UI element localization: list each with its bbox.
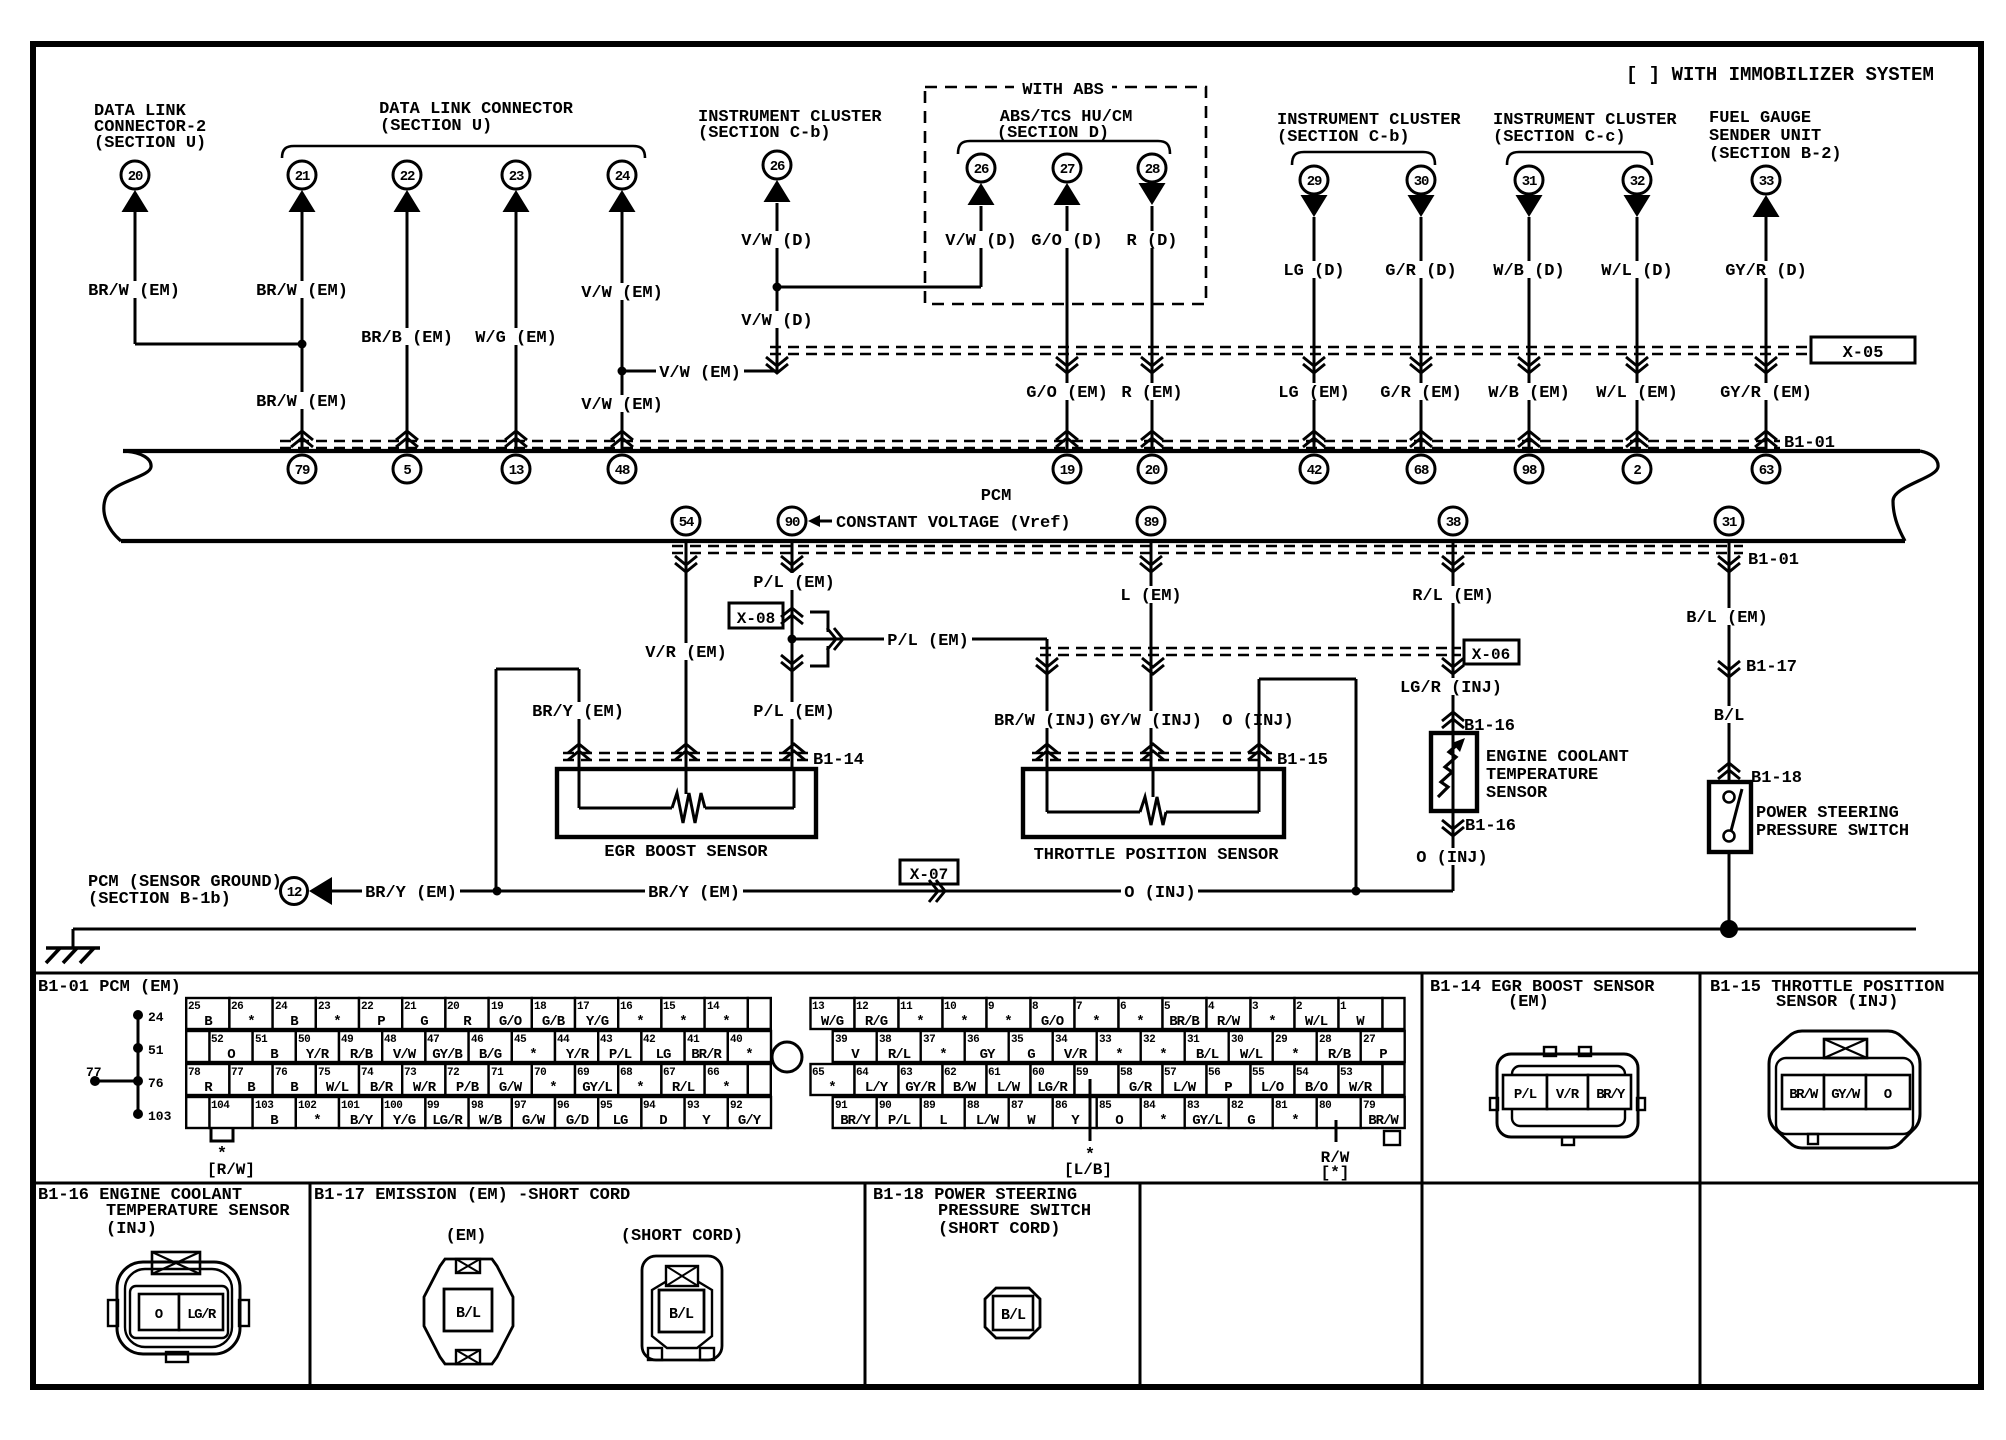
svg-text:PCM: PCM (981, 487, 1012, 506)
svg-text:[ ] WITH IMMOBILIZER SYSTEM: [ ] WITH IMMOBILIZER SYSTEM (1626, 64, 1934, 86)
svg-text:23: 23 (509, 169, 524, 185)
svg-text:W/L (EM): W/L (EM) (1596, 384, 1678, 403)
connector B1-15 throttle sensor drawing (1769, 1031, 1920, 1148)
svg-text:R (EM): R (EM) (1121, 384, 1182, 403)
svg-text:(SECTION C-b): (SECTION C-b) (1277, 128, 1410, 147)
label V/W (EM) wire 24 upper (578, 283, 666, 300)
svg-text:V/W: V/W (393, 1047, 417, 1063)
connector B1-01 upper crossing at x=1152 (1141, 431, 1163, 440)
svg-text:86: 86 (1055, 1100, 1067, 1112)
label GY/R (D) (1722, 261, 1810, 278)
svg-text:SENSOR: SENSOR (1486, 784, 1548, 803)
connector B1-01 upper crossing at x=1421 (1410, 431, 1432, 440)
svg-text:V/R: V/R (1556, 1087, 1580, 1103)
B1-01 pin 104 tab (211, 1128, 233, 1164)
brace INSTRUMENT CLUSTER C-b group (1292, 152, 1435, 165)
svg-text:13: 13 (812, 1001, 825, 1013)
svg-text:26: 26 (974, 162, 989, 178)
svg-text:X-05: X-05 (1843, 344, 1884, 363)
node label PCM (SENSOR GROUND) (88, 873, 282, 909)
svg-text:FUEL GAUGE: FUEL GAUGE (1709, 109, 1811, 128)
B1-01 side pin markers (86, 1010, 172, 1124)
svg-text:48: 48 (384, 1034, 397, 1046)
node label FUEL GAUGE SENDER UNIT (1709, 109, 1842, 164)
node label INSTRUMENT CLUSTER (SECTION C-c) (1493, 111, 1677, 147)
svg-text:79: 79 (1363, 1100, 1375, 1112)
svg-text:CONSTANT VOLTAGE (Vref): CONSTANT VOLTAGE (Vref) (836, 514, 1071, 533)
svg-text:*: * (636, 1080, 643, 1096)
svg-text:LG/R: LG/R (432, 1113, 463, 1129)
svg-text:26: 26 (231, 1001, 243, 1013)
svg-text:7: 7 (1076, 1001, 1082, 1013)
label W/L (D) (1598, 261, 1675, 278)
svg-text:B1-01: B1-01 (1748, 551, 1799, 570)
svg-text:98: 98 (1522, 463, 1537, 479)
svg-text:W/G (EM): W/G (EM) (475, 329, 557, 348)
svg-text:92: 92 (730, 1100, 742, 1112)
svg-text:4: 4 (1208, 1001, 1215, 1013)
svg-text:TEMPERATURE: TEMPERATURE (1486, 766, 1598, 785)
label BR/W (EM) wire 20 (85, 281, 183, 298)
terminal 23 at x=516 (502, 161, 530, 212)
svg-text:94: 94 (643, 1100, 656, 1112)
svg-text:*: * (1136, 1014, 1143, 1030)
svg-text:75: 75 (318, 1067, 331, 1079)
svg-text:W/G: W/G (821, 1014, 844, 1030)
svg-text:GY/R (EM): GY/R (EM) (1720, 384, 1812, 403)
label L (EM) (1117, 586, 1184, 603)
svg-text:Y/R: Y/R (566, 1047, 590, 1063)
svg-text:66: 66 (707, 1067, 719, 1079)
svg-text:LG: LG (656, 1047, 671, 1063)
svg-text:2: 2 (1296, 1001, 1302, 1013)
wire power steering switch to ground (1728, 852, 1731, 929)
wire V/W (EM) from terminal 24 to PCM pin 48 (621, 212, 624, 451)
svg-text:B1-18: B1-18 (1751, 769, 1802, 788)
connector B1-01 lower crossing at x=686 (675, 556, 697, 565)
svg-text:*: * (1268, 1014, 1275, 1030)
svg-text:95: 95 (600, 1100, 613, 1112)
section divider vertical B1-15 (1699, 973, 1702, 1183)
connector X-08 crossing down (781, 655, 803, 664)
svg-text:6: 6 (1120, 1001, 1126, 1013)
wire BR/W (EM) from terminal 21 to PCM pin 79 (301, 212, 304, 451)
svg-text:O (INJ): O (INJ) (1416, 849, 1487, 868)
throttle position sensor box (1023, 769, 1284, 837)
svg-text:G/D: G/D (566, 1113, 589, 1129)
connector B1-14 EGR drawing (1490, 1047, 1645, 1145)
svg-text:EGR BOOST SENSOR: EGR BOOST SENSOR (604, 843, 768, 862)
svg-text:(SECTION U): (SECTION U) (94, 134, 206, 153)
svg-text:B/L: B/L (1714, 707, 1745, 726)
junction V/W (D) split (773, 283, 782, 292)
svg-text:R/W: R/W (1217, 1014, 1241, 1030)
svg-text:SENDER UNIT: SENDER UNIT (1709, 127, 1821, 146)
svg-text:103: 103 (255, 1100, 274, 1112)
connector B1-15 crossing at x=1259 (1248, 744, 1270, 753)
wire ground line (73, 929, 1916, 948)
svg-text:47: 47 (427, 1034, 439, 1046)
svg-text:[*]: [*] (1321, 1164, 1350, 1182)
svg-text:BR/Y: BR/Y (1596, 1087, 1626, 1103)
connector B1-17 SHORT CORD drawing (642, 1256, 722, 1360)
svg-text:GY/L: GY/L (1192, 1113, 1222, 1129)
svg-text:V/W (D): V/W (D) (741, 232, 812, 251)
label O (INJ) bus (1121, 883, 1198, 900)
wire V/R (EM) PCM pin 54 to EGR boost sensor (685, 541, 688, 769)
B1-01 grid screw hole (772, 1042, 802, 1072)
svg-text:O: O (155, 1307, 163, 1323)
svg-text:3: 3 (1252, 1001, 1259, 1013)
B1-01 pin 80 lead (1321, 1120, 1350, 1167)
svg-text:26: 26 (770, 159, 785, 175)
svg-text:G/O (EM): G/O (EM) (1026, 384, 1108, 403)
svg-text:P/L (EM): P/L (EM) (753, 574, 835, 593)
arrow into terminal 12 (309, 877, 332, 905)
svg-text:80: 80 (1319, 1100, 1331, 1112)
connector B1-16 upper crossing (1442, 712, 1464, 721)
svg-text:11: 11 (900, 1001, 913, 1013)
connector B1-15 dashed bus (1032, 752, 1272, 754)
svg-text:27: 27 (1363, 1034, 1375, 1046)
svg-text:*: * (1092, 1014, 1099, 1030)
terminal 22 at x=407 (393, 161, 421, 212)
svg-text:GY/W: GY/W (1831, 1087, 1861, 1103)
terminal 29 at x=1314 (1300, 166, 1328, 217)
svg-text:V/R: V/R (1064, 1047, 1088, 1063)
wire R/L (EM) PCM pin 38 to coolant sensor (1452, 541, 1455, 733)
section divider horizontal 1 (33, 972, 1981, 975)
svg-text:33: 33 (1099, 1034, 1112, 1046)
svg-text:D: D (659, 1113, 667, 1129)
svg-text:102: 102 (298, 1100, 316, 1112)
connector B1-01 lower crossing at x=1453 (1442, 556, 1464, 565)
label B1-16 ENGINE COOLANT TEMPERATURE SENSOR (38, 1186, 290, 1239)
svg-text:V/R (EM): V/R (EM) (645, 644, 727, 663)
svg-text:R/G: R/G (865, 1014, 888, 1030)
svg-text:96: 96 (557, 1100, 569, 1112)
connector B1-15 crossing at x=1047 (1036, 744, 1058, 753)
svg-text:76: 76 (275, 1067, 287, 1079)
svg-text:L/W: L/W (1173, 1080, 1197, 1096)
svg-text:G: G (1247, 1113, 1255, 1129)
svg-text:R/L: R/L (888, 1047, 911, 1063)
svg-text:31: 31 (1722, 515, 1737, 531)
svg-text:1: 1 (1340, 1001, 1347, 1013)
svg-text:W/B: W/B (479, 1113, 503, 1129)
svg-text:81: 81 (1275, 1100, 1288, 1112)
connector B1-17 crossing (1718, 661, 1740, 670)
svg-text:Y/R: Y/R (306, 1047, 330, 1063)
label P/L (EM) upper (750, 573, 838, 590)
connector X-08 crossing up (781, 608, 803, 617)
svg-text:43: 43 (600, 1034, 613, 1046)
svg-text:28: 28 (1145, 162, 1160, 178)
svg-text:103: 103 (148, 1109, 172, 1124)
ECT thermistor symbol (1438, 733, 1465, 811)
svg-text:59: 59 (1076, 1067, 1088, 1079)
svg-text:69: 69 (577, 1067, 589, 1079)
label V/W (EM) on branch (656, 363, 744, 380)
svg-text:89: 89 (1144, 515, 1159, 531)
svg-text:WITH ABS: WITH ABS (1022, 81, 1104, 100)
svg-text:B/L: B/L (1196, 1047, 1219, 1063)
junction P/L branch (788, 635, 797, 644)
label LG (D) (1280, 261, 1347, 278)
svg-text:83: 83 (1187, 1100, 1200, 1112)
connector X-05 box (1811, 337, 1915, 363)
svg-text:W/B (D): W/B (D) (1493, 262, 1564, 281)
brace DATA LINK CONNECTOR group (282, 146, 645, 158)
power steering pressure switch contacts (1724, 789, 1743, 842)
svg-text:*: * (1159, 1047, 1166, 1063)
svg-text:B/R: B/R (370, 1080, 394, 1096)
junction power steering ground (1720, 920, 1738, 938)
svg-text:G/O: G/O (1041, 1014, 1064, 1030)
svg-text:*: * (636, 1014, 643, 1030)
B1-01 pin 59 lead (1085, 1079, 1095, 1165)
svg-text:B/Y: B/Y (350, 1113, 374, 1129)
svg-text:X-06: X-06 (1472, 646, 1510, 664)
svg-text:50: 50 (298, 1034, 310, 1046)
svg-text:22: 22 (361, 1001, 373, 1013)
svg-text:L/O: L/O (1261, 1080, 1284, 1096)
terminal 12 sensor ground (281, 878, 308, 905)
node label DATA LINK CONNECTOR (379, 100, 574, 136)
EGR boost sensor box (557, 769, 816, 837)
svg-text:30: 30 (1231, 1034, 1243, 1046)
wire L (EM) PCM pin 89 to throttle sensor (1150, 541, 1153, 769)
label BR/Y (EM) middle (645, 883, 743, 900)
wire BR/B (EM) from terminal 22 to PCM pin 5 (406, 212, 409, 451)
svg-text:B/L: B/L (1001, 1307, 1026, 1324)
terminal 26 at x=777 (763, 151, 791, 202)
svg-text:52: 52 (211, 1034, 223, 1046)
svg-text:30: 30 (1414, 174, 1429, 190)
label BR/W (EM) wire 21 lower (253, 392, 351, 409)
svg-text:31: 31 (1522, 174, 1537, 190)
svg-text:B/W: B/W (953, 1080, 977, 1096)
connector B1-01 upper crossing at x=1067 (1056, 431, 1078, 440)
connector B1-01 lower crossing at x=792 (781, 556, 803, 565)
svg-text:54: 54 (679, 515, 694, 531)
svg-text:R/B: R/B (1328, 1047, 1352, 1063)
svg-text:B/O: B/O (1305, 1080, 1328, 1096)
svg-text:89: 89 (923, 1100, 935, 1112)
svg-text:L/W: L/W (976, 1113, 1000, 1129)
svg-text:79: 79 (295, 463, 310, 479)
connector B1-01 upper crossing at x=1529 (1518, 431, 1540, 440)
svg-text:BR/R: BR/R (691, 1047, 722, 1063)
svg-text:20: 20 (1145, 463, 1160, 479)
svg-text:17: 17 (577, 1001, 589, 1013)
connector B1-18 crossing (1718, 763, 1740, 772)
PCM connector band outline (104, 451, 1938, 541)
label P/L (EM) branch (884, 631, 972, 648)
label G/O (EM) (1023, 383, 1111, 400)
svg-text:(SHORT CORD): (SHORT CORD) (938, 1220, 1060, 1239)
wire G/R from terminal 30 to PCM pin 68 (1420, 217, 1423, 451)
PCM pin 68 (1407, 455, 1435, 483)
svg-text:G/W: G/W (522, 1113, 546, 1129)
wire V/W (D) instrument cluster 26 (776, 203, 779, 371)
svg-text:GY/W (INJ): GY/W (INJ) (1100, 712, 1202, 731)
dashed box WITH ABS (925, 87, 1206, 304)
svg-text:X-08: X-08 (737, 610, 775, 628)
svg-text:GY/B: GY/B (432, 1047, 463, 1063)
connector X-08 branch crossing right (827, 628, 836, 650)
label P/L (EM) lower (750, 702, 838, 719)
svg-text:P: P (1379, 1047, 1387, 1063)
svg-text:38: 38 (879, 1034, 892, 1046)
label B1-15 THROTTLE POSITION SENSOR (1710, 978, 1945, 1012)
svg-text:BR/W: BR/W (1789, 1087, 1819, 1103)
svg-text:BR/Y (EM): BR/Y (EM) (648, 884, 740, 903)
svg-text:51: 51 (148, 1043, 164, 1058)
connector B1-14 dashed bus (563, 752, 808, 754)
svg-text:73: 73 (404, 1067, 417, 1079)
connector B1-18 drawing (985, 1288, 1040, 1338)
wire BR/W (EM) from terminal 20 (135, 212, 302, 344)
PCM pin 2 (1623, 455, 1651, 483)
label G/R (D) (1382, 261, 1459, 278)
engine coolant temperature sensor box (1431, 733, 1477, 811)
svg-text:B1-01 PCM (EM): B1-01 PCM (EM) (38, 978, 181, 997)
svg-text:THROTTLE POSITION SENSOR: THROTTLE POSITION SENSOR (1034, 846, 1280, 865)
svg-text:LG/R (INJ): LG/R (INJ) (1400, 679, 1502, 698)
svg-text:63: 63 (900, 1067, 913, 1079)
label CONSTANT VOLTAGE (Vref) (808, 514, 1071, 533)
svg-text:W/R: W/R (1349, 1080, 1373, 1096)
PCM pin 98 (1515, 455, 1543, 483)
svg-text:R/L (EM): R/L (EM) (1412, 587, 1494, 606)
svg-text:100: 100 (384, 1100, 402, 1112)
svg-text:W/L (D): W/L (D) (1601, 262, 1672, 281)
svg-text:14: 14 (707, 1001, 720, 1013)
svg-text:*: * (1291, 1113, 1298, 1129)
label LG (EM) (1275, 383, 1352, 400)
svg-text:(SECTION C-c): (SECTION C-c) (1493, 128, 1626, 147)
connector B1-14 crossing at x=579 (568, 744, 590, 753)
svg-text:P/L: P/L (609, 1047, 632, 1063)
svg-text:2: 2 (1633, 463, 1641, 479)
svg-text:32: 32 (1143, 1034, 1155, 1046)
label G/R (EM) (1377, 383, 1465, 400)
svg-text:104: 104 (211, 1100, 230, 1112)
label B/L (EM) (1683, 608, 1771, 625)
svg-text:58: 58 (1120, 1067, 1133, 1079)
svg-text:G: G (1027, 1047, 1035, 1063)
svg-text:O: O (1884, 1087, 1892, 1103)
svg-text:*: * (1115, 1047, 1122, 1063)
PCM pin 13 (502, 455, 530, 483)
svg-text:*: * (1159, 1113, 1166, 1129)
svg-text:24: 24 (615, 169, 630, 185)
svg-text:*: * (916, 1014, 923, 1030)
connector X-05 crossing at x=1766 (1755, 357, 1777, 366)
svg-text:16: 16 (620, 1001, 632, 1013)
svg-text:BR/Y: BR/Y (840, 1113, 871, 1129)
svg-text:W/L: W/L (326, 1080, 349, 1096)
connector X-05 crossing at x=777 (766, 357, 788, 366)
svg-text:BR/B (EM): BR/B (EM) (361, 329, 453, 348)
power steering pressure switch box (1709, 782, 1751, 852)
svg-text:GY/L: GY/L (582, 1080, 612, 1096)
terminal 21 at x=302 (288, 161, 316, 212)
svg-text:B/L: B/L (456, 1305, 481, 1322)
svg-text:68: 68 (1414, 463, 1429, 479)
svg-text:B1-14: B1-14 (813, 751, 864, 770)
svg-text:G: G (420, 1014, 428, 1030)
terminal 20 at x=135 (121, 161, 149, 212)
svg-text:56: 56 (1208, 1067, 1220, 1079)
svg-text:TEMPERATURE SENSOR: TEMPERATURE SENSOR (106, 1202, 290, 1221)
svg-text:42: 42 (643, 1034, 655, 1046)
label V/W (D) cluster upper (738, 231, 815, 248)
section divider vertical bottom x=1700 (1699, 1183, 1702, 1387)
svg-text:88: 88 (967, 1100, 980, 1112)
wire O (INJ) from ECT sensor (1356, 811, 1453, 891)
connector X-08 box (729, 603, 783, 628)
connector B1-16 ECT drawing (108, 1252, 249, 1362)
svg-text:G/W: G/W (499, 1080, 523, 1096)
label V/W (D) ABS (942, 231, 1019, 248)
svg-text:(SECTION U): (SECTION U) (380, 117, 492, 136)
node label ABS/TCS HU/CM (997, 108, 1132, 143)
connector X-05 crossing at x=1637 (1626, 357, 1648, 366)
label W/L (EM) (1593, 383, 1681, 400)
svg-text:78: 78 (188, 1067, 201, 1079)
label R/L (EM) (1409, 586, 1497, 603)
label B1-14 EGR BOOST SENSOR (1430, 978, 1655, 1012)
svg-text:63: 63 (1759, 463, 1774, 479)
svg-text:*: * (960, 1014, 967, 1030)
svg-text:PRESSURE SWITCH: PRESSURE SWITCH (938, 1202, 1091, 1221)
junction terminal20/21 wires (298, 340, 307, 349)
wire P/L (EM) PCM pin 90 (791, 541, 794, 769)
node label DATA LINK CONNECTOR-2 (94, 102, 206, 153)
svg-text:(SECTION C-b): (SECTION C-b) (698, 124, 831, 143)
svg-text:B/L (EM): B/L (EM) (1686, 609, 1768, 628)
svg-text:34: 34 (1055, 1034, 1068, 1046)
svg-text:91: 91 (835, 1100, 848, 1112)
label GY/R (EM) (1717, 383, 1815, 400)
svg-text:(EM): (EM) (446, 1227, 487, 1246)
wire V/W (D) branch to ABS terminal 26 (777, 206, 981, 287)
brace INSTRUMENT CLUSTER C-c group (1507, 152, 1652, 165)
connector X-05 crossing at x=1314 (1303, 357, 1325, 366)
svg-text:21: 21 (404, 1001, 417, 1013)
svg-text:84: 84 (1143, 1100, 1156, 1112)
svg-text:5: 5 (403, 463, 411, 479)
svg-text:V/W (EM): V/W (EM) (581, 284, 663, 303)
svg-text:55: 55 (1252, 1067, 1265, 1079)
label B1-18 POWER STEERING PRESSURE SWITCH (873, 1186, 1091, 1239)
label W/G (EM) (472, 328, 560, 345)
svg-text:99: 99 (427, 1100, 439, 1112)
svg-text:POWER STEERING: POWER STEERING (1756, 804, 1899, 823)
connector B1-01 pin grid (186, 998, 1405, 1129)
svg-text:28: 28 (1319, 1034, 1332, 1046)
connector X-06 dashed bus (1040, 647, 1461, 649)
wire B/L (EM) PCM pin 31 (1728, 541, 1731, 782)
svg-text:P/L: P/L (1514, 1087, 1537, 1103)
svg-text:[R/W]: [R/W] (207, 1161, 255, 1179)
svg-text:BR/W (EM): BR/W (EM) (88, 282, 180, 301)
svg-text:L (EM): L (EM) (1120, 587, 1181, 606)
PCM pin 54 (672, 507, 700, 535)
svg-text:10: 10 (944, 1001, 956, 1013)
